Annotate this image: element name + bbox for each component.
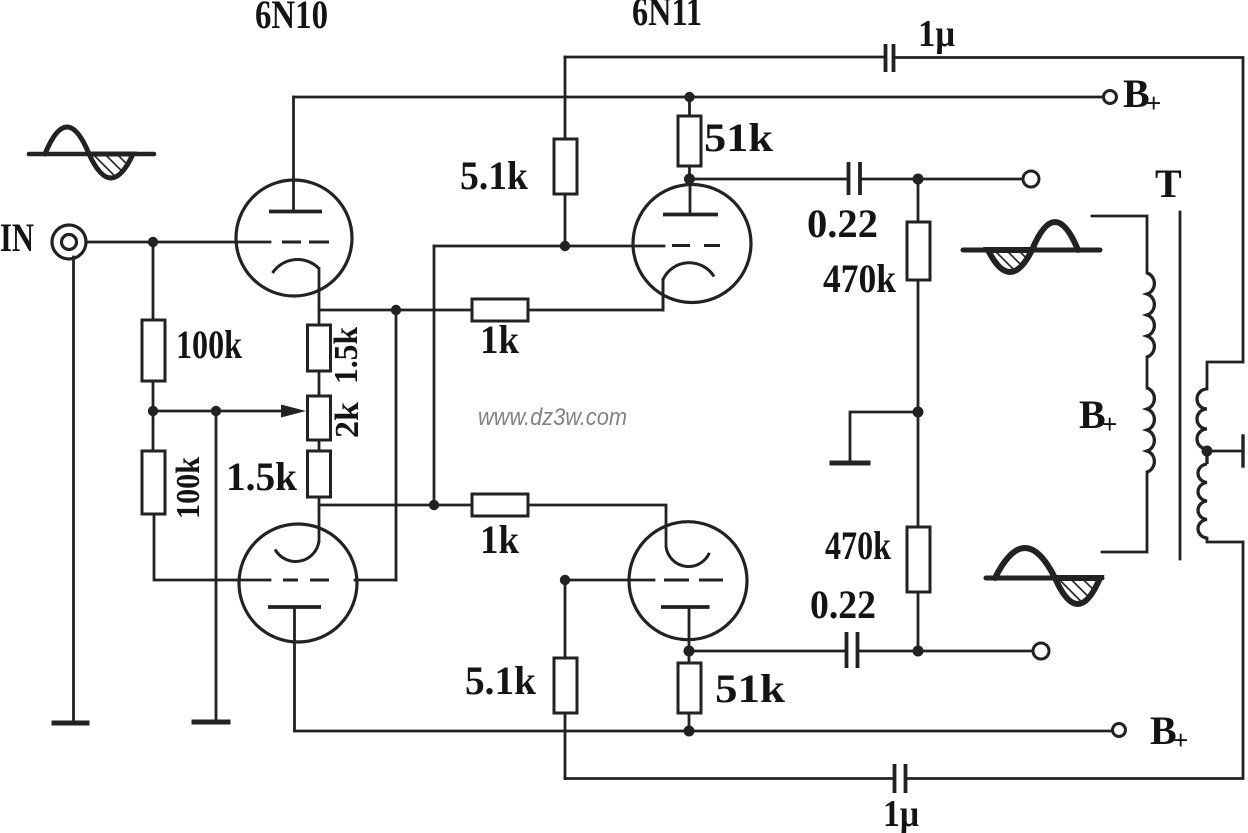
wire C4 to right feedback riser bbox=[907, 542, 1243, 779]
V1 cathode bbox=[273, 259, 320, 273]
wire node E to V3 grid row bbox=[433, 246, 436, 505]
label B+ (top) bbox=[1123, 71, 1161, 118]
capacitor C2 0.22 bbox=[847, 632, 858, 668]
svg-text:5.1k: 5.1k bbox=[465, 658, 537, 703]
transformer T secondary lower winding bbox=[1198, 451, 1207, 538]
wire input row to V1 grid bbox=[86, 241, 270, 244]
node A bbox=[148, 406, 158, 416]
ground (input jack) bbox=[54, 721, 87, 726]
V3 cathode bbox=[663, 263, 714, 280]
resistor R11 5.1k bbox=[554, 580, 577, 779]
V2 anode plate bbox=[268, 605, 321, 609]
transformer T primary lower winding bbox=[1147, 388, 1154, 472]
svg-text:470k: 470k bbox=[823, 256, 897, 301]
V4 cathode bbox=[666, 546, 709, 566]
svg-text:1.5k: 1.5k bbox=[226, 454, 298, 499]
wire node L to C2 bbox=[689, 650, 845, 653]
V3 cathode lead bbox=[662, 280, 665, 311]
node F (V3 grid / R7) bbox=[560, 241, 570, 251]
svg-text:51k: 51k bbox=[704, 115, 774, 160]
resistor R7 5.1k bbox=[554, 57, 577, 246]
wire RP to R4 bbox=[318, 440, 321, 451]
node B bbox=[211, 406, 221, 416]
tube V3 6N11 upper triode envelope bbox=[633, 185, 751, 303]
wire node H to C1 bbox=[690, 178, 847, 181]
output sine-wave symbol (lower, in phase) bbox=[986, 548, 1102, 604]
svg-text:100k: 100k bbox=[176, 322, 243, 367]
wire R2 bottom to V2 grid row bbox=[154, 514, 270, 580]
V3 grid dashes bbox=[672, 244, 720, 247]
svg-text:1μ: 1μ bbox=[918, 13, 955, 55]
wire C1 to output terminal 1 bbox=[862, 178, 1023, 181]
node N (C2 / R10) bbox=[913, 646, 924, 657]
V3 anode lead bbox=[689, 179, 692, 215]
tube V2 6N10 lower triode envelope bbox=[239, 524, 357, 642]
V2 grid right wire to node D bbox=[355, 579, 396, 582]
wire top feedback row to C3 bbox=[565, 56, 884, 59]
output sine-wave symbol (upper, inverted) bbox=[963, 222, 1100, 272]
resistor R10 470k bbox=[907, 412, 930, 651]
capacitor C3 1u bbox=[886, 44, 894, 72]
V4 grid dashes bbox=[664, 579, 723, 582]
tube V4 6N11 lower triode envelope bbox=[629, 522, 747, 640]
resistor R1 100k bbox=[142, 320, 165, 381]
resistor R3 1.5k bbox=[308, 325, 331, 371]
resistor R9 470k bbox=[907, 179, 930, 412]
ground (node B) bbox=[194, 720, 228, 725]
wire node D to V2 grid row bbox=[395, 310, 398, 580]
svg-text:0.22: 0.22 bbox=[807, 201, 878, 246]
wire V4 grid row bbox=[565, 579, 654, 582]
wire V2 cathode row to node E bbox=[319, 504, 472, 507]
capacitor C1 0.22 bbox=[849, 162, 861, 195]
wire R3 to RP 2k bbox=[318, 371, 321, 396]
transformer T primary bottom lead bbox=[1102, 472, 1147, 552]
ground (middle) bbox=[832, 461, 868, 466]
svg-text:0.22: 0.22 bbox=[810, 582, 876, 627]
wire jack to ground bbox=[72, 257, 75, 721]
wire R5 to V3 cathode bbox=[528, 280, 663, 310]
wire node B to ground bbox=[215, 411, 218, 719]
transformer T primary top lead bbox=[1092, 216, 1147, 273]
tube V1 6N10 upper triode envelope bbox=[236, 180, 352, 296]
svg-text:1μ: 1μ bbox=[883, 793, 919, 833]
svg-text:+: + bbox=[1146, 88, 1161, 118]
bottom B+ rail from V2 anode bbox=[295, 730, 1113, 733]
V1 grid dashes bbox=[282, 241, 329, 244]
resistor R5 1k bbox=[472, 299, 528, 321]
V4 anode plate bbox=[661, 605, 710, 609]
svg-text:2k: 2k bbox=[329, 402, 366, 438]
transformer T secondary upper winding bbox=[1197, 389, 1207, 449]
svg-text:1k: 1k bbox=[480, 517, 520, 562]
node input/R1 junction bbox=[148, 237, 158, 247]
wire C2 to output terminal 2 bbox=[859, 650, 1032, 653]
resistor R2 100k bbox=[142, 451, 165, 514]
svg-text:1.5k: 1.5k bbox=[328, 327, 365, 384]
wire bottom feedback row to C4 bbox=[565, 777, 893, 780]
output terminal 1 bbox=[1023, 171, 1039, 187]
svg-text:6N11: 6N11 bbox=[632, 0, 702, 34]
node D top (cathode row / lower-grid tie) bbox=[391, 305, 401, 315]
V4 anode lead bbox=[688, 607, 691, 651]
potentiometer RP 2k body bbox=[308, 396, 331, 440]
secondary tap terminal bar bbox=[1241, 436, 1244, 466]
transformer T primary mid section bbox=[1146, 357, 1149, 388]
svg-text:IN: IN bbox=[0, 215, 34, 260]
wire R4 bottom to V2 cathode bbox=[318, 497, 321, 541]
node K (V4 grid / R11) bbox=[560, 575, 570, 585]
transformer T secondary top lead bbox=[1207, 362, 1243, 389]
svg-text:5.1k: 5.1k bbox=[460, 153, 529, 198]
label B+ (bottom) bbox=[1150, 708, 1188, 755]
secondary tap lead bbox=[1207, 450, 1241, 453]
wire R6 to V4 cathode bbox=[528, 505, 666, 546]
svg-text:100k: 100k bbox=[170, 457, 207, 519]
input sine-wave symbol bbox=[29, 127, 154, 178]
V2 cathode bbox=[275, 541, 319, 561]
svg-text:470k: 470k bbox=[825, 523, 892, 568]
transformer T core bbox=[1179, 212, 1182, 559]
svg-text:T: T bbox=[1155, 161, 1182, 206]
wire node A to R2 top bbox=[152, 411, 155, 451]
wire V3 grid row bbox=[434, 245, 664, 248]
resistor R8 51k bbox=[678, 97, 701, 179]
node M (R12 / bottom rail) bbox=[684, 726, 695, 737]
svg-text:www.dz3w.com: www.dz3w.com bbox=[478, 404, 627, 431]
V1 anode lead to B+ rail bbox=[292, 97, 295, 212]
resistor R6 1k bbox=[472, 494, 528, 516]
node O secondary centre tap bbox=[1202, 446, 1213, 457]
V2 grid dashes bbox=[283, 579, 329, 582]
node I (C1 / R9) bbox=[913, 174, 924, 185]
wire R1 bottom to node A bbox=[152, 381, 155, 411]
potentiometer wiper arrowhead bbox=[281, 405, 306, 418]
B+ terminal (bottom) bbox=[1113, 724, 1126, 737]
input jack J1 bbox=[52, 225, 86, 259]
label B+ (transformer centre) bbox=[1079, 392, 1117, 439]
wire node J to ground bbox=[850, 412, 918, 461]
wire node to R1 top bbox=[152, 242, 155, 320]
V3 anode plate bbox=[663, 213, 718, 217]
resistor R4 1.5k bbox=[308, 451, 331, 497]
wire C3 to right feedback riser bbox=[896, 58, 1243, 363]
node E (cathode row / upper-grid tie) bbox=[429, 500, 439, 510]
node G (rail / R8 top) bbox=[684, 92, 694, 102]
node H (V3 anode / R8 / C1) bbox=[684, 174, 695, 185]
wire V1 cathode row to R5 1k bbox=[319, 309, 472, 312]
top B+ rail from V1 anode bbox=[294, 96, 1103, 99]
wire node A to potentiometer wiper arrow bbox=[153, 410, 283, 413]
V1 cathode lead down bbox=[318, 269, 321, 326]
V1 anode plate bbox=[269, 210, 322, 214]
resistor R12 51k bbox=[678, 651, 701, 731]
V2 anode lead to bottom B+ rail bbox=[293, 607, 296, 731]
B+ terminal (top) bbox=[1104, 91, 1117, 104]
output terminal 2 bbox=[1033, 643, 1049, 659]
svg-text:51k: 51k bbox=[715, 666, 786, 711]
svg-text:6N10: 6N10 bbox=[255, 0, 328, 37]
capacitor C4 1u bbox=[895, 764, 906, 793]
node J (R9 / R10 / ground) bbox=[913, 407, 924, 418]
transformer T primary upper winding bbox=[1147, 273, 1154, 357]
transformer T secondary bottom lead bbox=[1207, 538, 1243, 542]
svg-text:+: + bbox=[1173, 725, 1188, 755]
svg-text:+: + bbox=[1102, 409, 1117, 439]
svg-text:1k: 1k bbox=[480, 317, 520, 362]
node L (V4 anode / R12 / C2) bbox=[684, 646, 695, 657]
